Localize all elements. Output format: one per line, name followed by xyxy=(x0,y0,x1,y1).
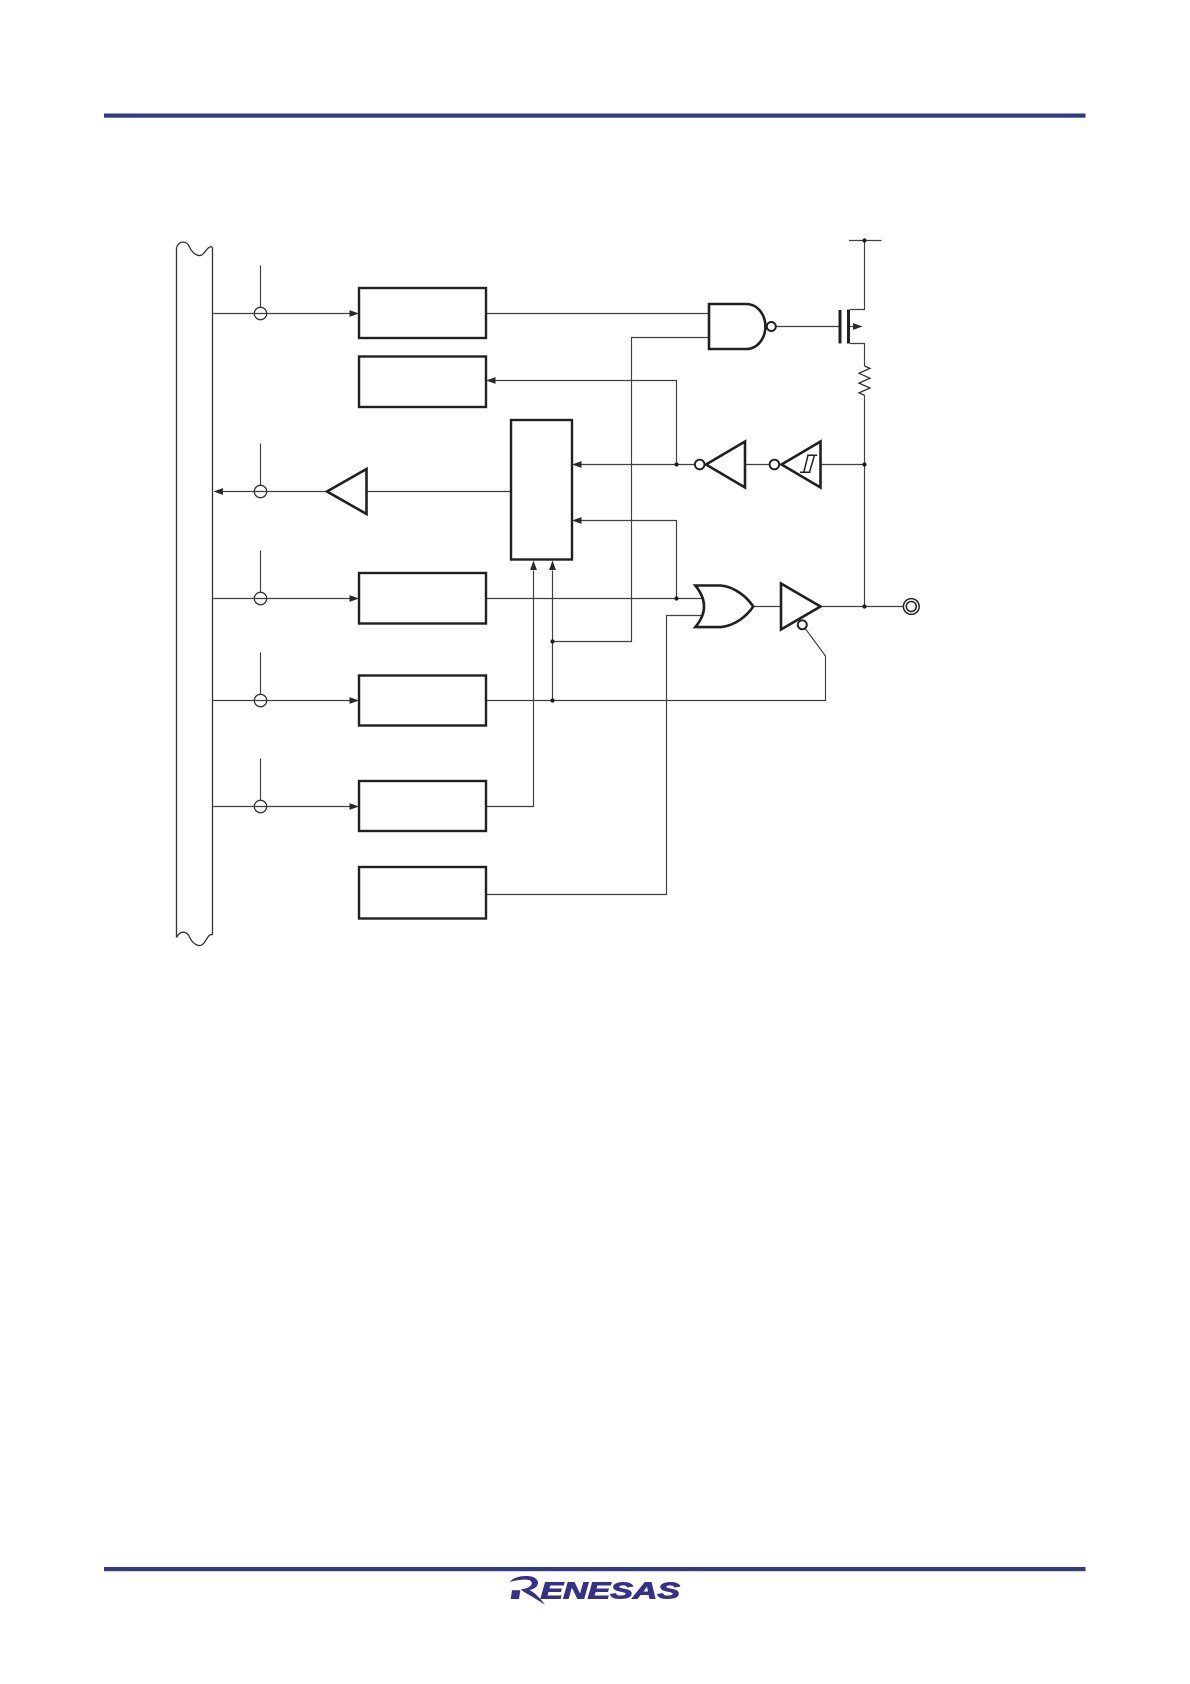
junction node output xyxy=(862,604,866,608)
header rule xyxy=(104,114,1086,118)
arrow up into selector bottom 2 xyxy=(549,561,556,571)
arrow up into selector bottom 1 xyxy=(530,561,537,571)
wire row1 bus to register box B1 xyxy=(213,241,903,895)
wire OR output to buffer xyxy=(753,606,781,608)
wire MOSFET drain to rail xyxy=(850,241,865,310)
OR gate U5 xyxy=(695,586,753,628)
register box B1 xyxy=(359,288,486,338)
wire row4 bus to register box B4 xyxy=(213,700,351,702)
bus tap circle row1 xyxy=(254,307,266,319)
arrow into B3 xyxy=(350,595,360,602)
bus tap circle row3 xyxy=(254,592,266,604)
inverter U3 xyxy=(706,442,745,488)
p-channel MOSFET Q1 gate bar xyxy=(839,310,842,344)
resistor R1 (pull-up) xyxy=(859,366,870,395)
wire link to NAND lower input xyxy=(553,338,710,642)
Renesas logo xyxy=(510,1576,681,1605)
MOSFET Q1 substrate arrow xyxy=(853,323,863,330)
bus tap circle row5 xyxy=(254,800,266,812)
logo square block xyxy=(511,1590,521,1599)
Schmitt trigger U2 output bubble xyxy=(770,460,780,470)
wire vertical from B4 row up into selector bottom xyxy=(552,571,554,701)
inverter U3 output bubble xyxy=(695,460,705,470)
inverter U4 (drives bus) xyxy=(327,469,367,514)
wire MOSFET substrate stub xyxy=(850,326,854,328)
data bus (left vertical bus with break waves) xyxy=(177,242,213,946)
arrow into B1 xyxy=(350,310,360,317)
register box B2 xyxy=(359,357,486,408)
logo stylized R swoosh xyxy=(510,1576,546,1605)
wire NAND output to MOSFET gate xyxy=(776,326,839,328)
junction node at inverter row right xyxy=(862,462,866,466)
wire selector second input xyxy=(582,521,677,599)
arrow into B5 xyxy=(350,803,360,810)
wire B6 output to OR lower input xyxy=(486,616,701,895)
NAND gate U1 xyxy=(709,304,765,349)
junction power rail xyxy=(862,238,866,242)
arrow into bus row2 xyxy=(214,488,224,495)
junction node row3 xyxy=(674,596,678,600)
register box B3 xyxy=(359,573,486,624)
wire row3 bus to register box B3 xyxy=(213,598,351,600)
arrow into selector right input 2 xyxy=(572,517,582,524)
junction node row4 xyxy=(550,698,554,702)
wire power rail xyxy=(849,240,882,242)
wire MOSFET source to resistor xyxy=(850,344,865,367)
wire into register box B2 xyxy=(496,381,677,465)
register box B6 xyxy=(359,867,486,919)
wire inverter chain row xyxy=(582,464,695,466)
bus tap circle row2 xyxy=(254,485,266,497)
arrow into B2 xyxy=(486,377,496,384)
bus tap circle row4 xyxy=(254,694,266,706)
register box B4 xyxy=(359,676,486,726)
arrow into selector right input 1 xyxy=(572,461,582,468)
pad P1 (I/O pin, double circle) xyxy=(903,599,919,615)
buffer U6 enable bubble xyxy=(798,620,807,629)
svg-text:ENESAS: ENESAS xyxy=(541,1578,681,1604)
wire row2 inverter to bus xyxy=(223,491,328,493)
arrow into B4 xyxy=(350,697,360,704)
Schmitt trigger hysteresis mark xyxy=(800,455,817,472)
output buffer U6 (tri-state) xyxy=(781,584,821,630)
register box B5 xyxy=(359,781,486,831)
junction node at inverter row left xyxy=(674,462,678,466)
junction node NAND link xyxy=(550,639,554,643)
wire buffer output to pad xyxy=(821,606,903,608)
selector box U7 (tall) xyxy=(511,420,572,560)
Schmitt trigger U2 xyxy=(782,442,821,488)
wire row5 bus to register box B5 xyxy=(213,806,351,808)
MOSFET Q1 channel bar xyxy=(847,310,850,344)
wire resistor to output node xyxy=(864,395,866,606)
footer rule xyxy=(104,1567,1086,1571)
wire B1 output to NAND upper input xyxy=(486,313,709,315)
NAND output bubble xyxy=(767,322,776,331)
